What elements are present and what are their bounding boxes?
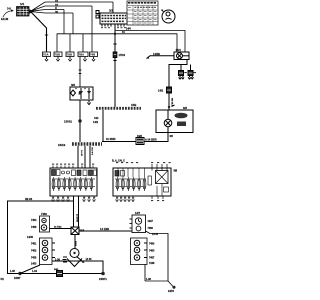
svg-text:6/3: 6/3	[183, 106, 187, 110]
svg-text:7248: 7248	[149, 262, 155, 265]
svg-text:3-8: 3-8	[7, 7, 11, 11]
svg-text:1-38: 1-38	[146, 278, 151, 281]
svg-text:34/3: 34/3	[137, 135, 142, 138]
svg-text:7458: 7458	[31, 226, 37, 229]
svg-text:SB: SB	[170, 135, 174, 138]
svg-text:SB 95-R: SB 95-R	[171, 98, 173, 107]
svg-text:14 30: 14 30	[86, 258, 93, 261]
svg-text:1-34: 1-34	[32, 270, 37, 273]
svg-text:A-14 SB/R: A-14 SB/R	[145, 138, 157, 141]
svg-text:14 30: 14 30	[152, 233, 159, 236]
svg-text:1947: 1947	[148, 220, 154, 223]
svg-text:7455: 7455	[31, 257, 37, 260]
svg-text:7486: 7486	[148, 227, 154, 230]
svg-text:7456: 7456	[149, 243, 155, 246]
svg-text:3/1: 3/1	[109, 9, 114, 13]
svg-text:1A 4R: 1A 4R	[80, 150, 83, 157]
svg-text:14/30: 14/30	[27, 236, 34, 239]
svg-text:31/5: 31/5	[80, 230, 85, 233]
svg-text:1453: 1453	[31, 263, 37, 266]
svg-text:A A C/4: A A C/4	[91, 147, 94, 155]
svg-text:SB/S: SB/S	[74, 241, 76, 247]
svg-text:7/1A: 7/1A	[43, 53, 49, 57]
svg-text:23/67: 23/67	[14, 276, 21, 280]
svg-text:1/1: 1/1	[20, 2, 25, 6]
svg-text:14/2B: 14/2B	[153, 52, 160, 56]
svg-text:31 SB/R: 31 SB/R	[106, 138, 116, 141]
svg-text:13/7: 13/7	[135, 211, 141, 215]
svg-text:7453: 7453	[149, 250, 155, 253]
svg-text:7454: 7454	[31, 219, 37, 222]
svg-text:30: 30	[55, 10, 59, 14]
svg-text:1-35: 1-35	[10, 270, 15, 273]
svg-text:7452: 7452	[31, 250, 37, 253]
svg-text:3/8: 3/8	[71, 83, 75, 87]
svg-text:1-36: 1-36	[55, 258, 60, 261]
svg-text:74/5: 74/5	[90, 53, 96, 57]
svg-text:13001: 13001	[64, 120, 72, 124]
svg-text:15B: 15B	[131, 103, 136, 107]
svg-text:24/19: 24/19	[58, 143, 66, 147]
svg-text:7459: 7459	[41, 212, 47, 216]
svg-text:7451: 7451	[31, 243, 37, 246]
svg-text:7457: 7457	[149, 257, 155, 260]
svg-text:5M: 5M	[174, 170, 177, 173]
svg-text:2478: 2478	[168, 289, 174, 293]
svg-text:14 1/2B: 14 1/2B	[100, 227, 109, 231]
svg-text:17/24: 17/24	[119, 53, 126, 57]
svg-text:14/2: 14/2	[158, 89, 164, 93]
svg-text:14 4R/S: 14 4R/S	[76, 214, 79, 222]
svg-text:C24: C24	[94, 117, 99, 120]
svg-text:7/1B: 7/1B	[55, 53, 61, 57]
svg-text:7/1B: 7/1B	[67, 53, 73, 57]
svg-text:7/5A: 7/5A	[79, 53, 85, 57]
svg-text:15/1: 15/1	[176, 48, 182, 52]
svg-text:E11M: E11M	[1, 17, 9, 21]
svg-text:31 7/24: 31 7/24	[54, 226, 62, 229]
svg-text:14/4: 14/4	[126, 28, 131, 31]
svg-text:3B 94: 3B 94	[25, 197, 33, 201]
svg-text:24RF1: 24RF1	[99, 277, 107, 281]
svg-text:14/2: 14/2	[93, 120, 99, 124]
